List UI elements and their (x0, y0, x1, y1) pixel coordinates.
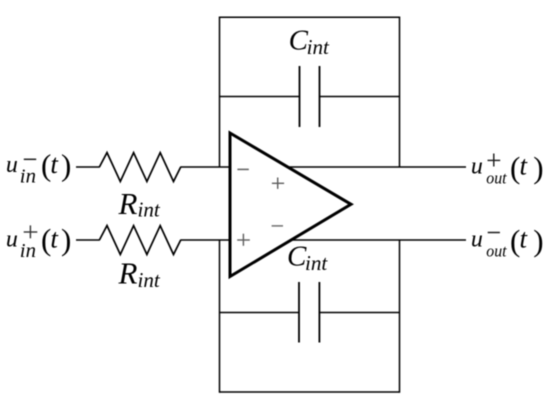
svg-text:): ) (61, 222, 71, 257)
resistor R_int (bottom) zigzag (99, 226, 180, 255)
feedback box bottom edge (220, 391, 400, 393)
svg-text:): ) (533, 223, 543, 258)
svg-text:t: t (520, 150, 529, 180)
svg-text:out: out (486, 242, 507, 261)
svg-text:in: in (20, 240, 36, 262)
label C_int (top) (289, 25, 330, 59)
svg-text:u: u (471, 227, 483, 253)
label u_in^+(t) (6, 222, 71, 262)
superscript plus of u_out (488, 154, 501, 167)
superscript minus of u_out (488, 232, 500, 234)
superscript minus of u_in (24, 158, 36, 160)
svg-text:u: u (6, 152, 18, 178)
svg-text:in: in (20, 165, 36, 187)
svg-text:out: out (486, 169, 507, 188)
svg-text:t: t (50, 223, 59, 253)
wire top capacitor right lead (320, 96, 400, 98)
label u_out^+(t) (471, 150, 544, 188)
op-amp U1 triangle (230, 133, 351, 277)
label R_int (bottom) (118, 256, 161, 292)
svg-text:C: C (287, 241, 307, 273)
svg-text:u: u (6, 227, 18, 253)
svg-text:int: int (305, 251, 328, 275)
svg-text:t: t (520, 223, 529, 253)
feedback box right edge upper segment (399, 17, 401, 168)
wire inverting input lead (76, 166, 100, 168)
svg-text:int: int (138, 268, 161, 292)
svg-text:int: int (307, 35, 330, 59)
feedback box left edge lower segment (219, 240, 221, 393)
op-amp non-inverting input marker + (237, 234, 250, 246)
svg-text:): ) (61, 148, 71, 183)
wire positive output (289, 166, 466, 168)
svg-text:t: t (50, 149, 59, 179)
capacitor C_int bottom plates (299, 282, 319, 343)
label u_in^-(t) (6, 148, 71, 188)
capacitor C_int top plates (300, 66, 320, 127)
wire bottom capacitor left lead (220, 312, 300, 314)
wire negative output (290, 239, 466, 241)
svg-text:): ) (533, 150, 543, 185)
svg-text:C: C (289, 25, 309, 57)
wire non-inverting input lead (76, 239, 100, 241)
wire top capacitor left lead (220, 96, 300, 98)
wire inverting input to op-amp (180, 166, 230, 168)
op-amp positive output marker + (272, 178, 284, 189)
svg-text:R: R (118, 186, 138, 221)
op-amp negative output marker - (272, 225, 283, 227)
feedback box right edge lower segment (399, 240, 401, 393)
svg-text:R: R (118, 256, 138, 291)
superscript plus of u_in (24, 225, 38, 238)
label R_int (top) (118, 186, 161, 222)
feedback box left edge upper segment (219, 17, 221, 168)
wire non-inverting input to op-amp (180, 239, 230, 241)
svg-text:int: int (138, 198, 161, 222)
wire bottom capacitor right lead (319, 312, 399, 314)
op-amp inverting input marker - (237, 168, 248, 170)
label u_out^-(t) (471, 223, 544, 261)
svg-text:u: u (471, 154, 483, 180)
resistor R_int (top) zigzag (99, 153, 180, 182)
feedback box top edge (220, 16, 400, 18)
label C_int (bottom) (287, 241, 328, 275)
